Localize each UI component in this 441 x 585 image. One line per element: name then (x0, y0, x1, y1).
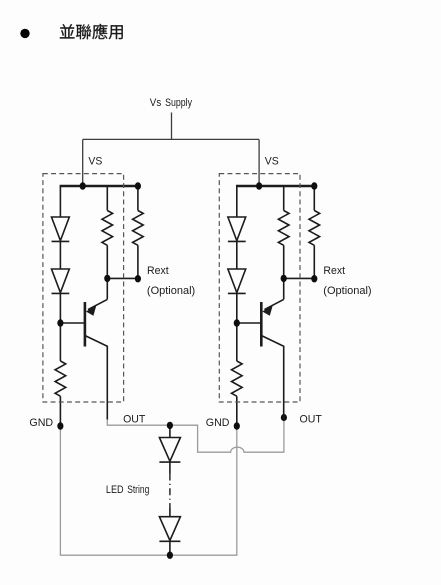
svg-text:Supply: Supply (165, 97, 192, 109)
svg-text:(Optional): (Optional) (323, 285, 371, 297)
svg-text:Vs: Vs (150, 98, 161, 110)
svg-text:Rext: Rext (323, 265, 345, 277)
svg-text:LED: LED (106, 484, 124, 496)
svg-text:OUT: OUT (123, 413, 146, 425)
svg-text:VS: VS (265, 155, 279, 167)
svg-text:String: String (127, 484, 149, 496)
svg-text:GND: GND (206, 417, 230, 429)
svg-text:GND: GND (29, 417, 53, 429)
svg-text:(Optional): (Optional) (147, 285, 195, 297)
svg-text:Rext: Rext (147, 265, 169, 277)
svg-text:OUT: OUT (300, 413, 323, 425)
svg-text:VS: VS (88, 155, 102, 167)
